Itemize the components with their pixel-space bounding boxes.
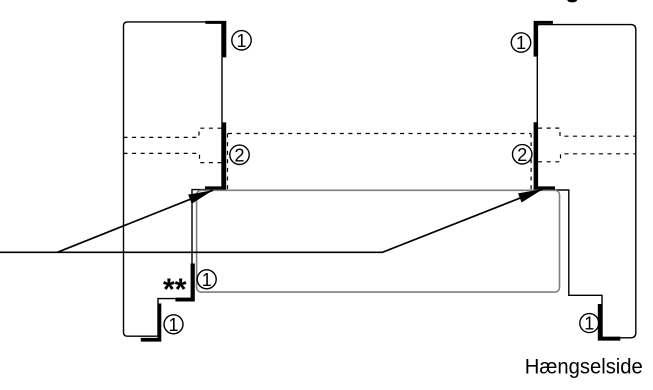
dashed wall line lower right	[538, 154, 636, 162]
callout circle 1 top right	[511, 33, 530, 53]
cut-off text descender blob top edge	[567, 0, 577, 2]
callout circle 2 mid right	[513, 145, 532, 165]
seal 1 top right corner (thick L)	[534, 21, 553, 57]
dashed wall line lower left	[124, 153, 222, 162]
dashed opening line middle	[228, 133, 531, 135]
svg-text:1: 1	[202, 270, 212, 290]
callout circle 1 door rebate	[197, 270, 216, 290]
left frame profile outline	[124, 22, 223, 336]
svg-text:1: 1	[516, 33, 526, 53]
dashed wall line upper right	[538, 128, 636, 136]
callout circle 1 top left	[232, 31, 251, 51]
leader line left branch	[57, 190, 213, 252]
svg-text:1: 1	[584, 314, 594, 334]
svg-text:2: 2	[234, 145, 244, 165]
arrowhead left	[188, 190, 213, 204]
svg-text:Hængselside: Hængselside	[525, 355, 643, 378]
dashed vertical at right reveal	[530, 134, 532, 190]
callout circle 1 bottom left	[164, 315, 183, 335]
leader line horizontal with right branch	[0, 189, 543, 252]
seal 1 left door rebate (thick L)	[175, 264, 194, 302]
seal 1 bottom right (thick L)	[598, 304, 621, 341]
svg-text:2: 2	[517, 145, 527, 165]
dashed wall line upper left	[124, 128, 222, 137]
callout circle 2 mid left	[230, 145, 249, 165]
svg-text:1: 1	[236, 31, 246, 51]
seal 2 mid right (thick L)	[534, 122, 555, 189]
callout circle 1 bottom right	[580, 314, 599, 334]
seal 2 mid left (thick L)	[205, 122, 226, 189]
seal 1 bottom left (thick L)	[141, 304, 162, 342]
svg-text:1: 1	[168, 315, 178, 335]
arrowhead right	[518, 189, 543, 203]
door leaf (gray)	[197, 190, 560, 292]
seal 1 top left corner (thick L)	[205, 21, 226, 58]
svg-text:**: **	[163, 272, 187, 307]
right frame profile outline	[537, 25, 636, 338]
dashed vertical at left reveal	[227, 134, 229, 190]
